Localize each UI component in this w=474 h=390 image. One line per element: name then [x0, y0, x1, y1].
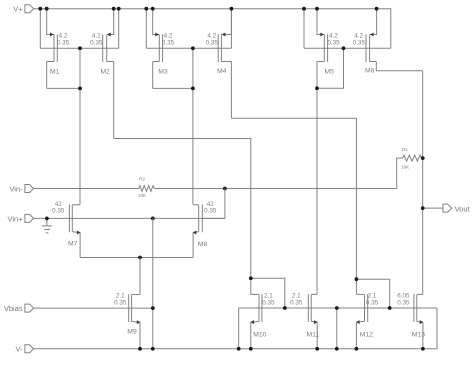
wire M12 drain-gate tie [356, 279, 389, 308]
svg-text:Vbias: Vbias [4, 304, 23, 313]
junction V- rail/M11 source [315, 347, 319, 351]
svg-text:2.1: 2.1 [116, 292, 125, 299]
junction M3/M4 gate node [191, 46, 195, 50]
wire Vin- line (left of R2) [34, 188, 139, 190]
transistor M3 PMOS 4.2/0.35 [146, 9, 174, 76]
transistor M11 NMOS 2.1/0.35 [290, 293, 319, 349]
port Vin+ [8, 214, 34, 223]
wire M4 drain runner to M12 [231, 118, 356, 294]
junction M2 drain / M10 drain node [249, 276, 253, 280]
ground symbol on Vin+ [42, 218, 52, 233]
junction V- rail/M9 source [138, 347, 142, 351]
transistor M1 PMOS 4.2/0.35 [40, 9, 69, 76]
junction M1/M2 gate node [78, 46, 82, 50]
transistor M7 NMOS 42/0.35 [52, 201, 80, 257]
junction M10/M11 gate node [283, 306, 287, 310]
svg-text:M12: M12 [360, 331, 373, 338]
wire Vbias line [34, 307, 153, 309]
svg-text:0.35: 0.35 [90, 40, 103, 47]
transistor M4 PMOS 4.2/0.35 [206, 9, 232, 75]
wire M2 drain down [113, 62, 115, 139]
wire M2 drain runner to M10 [114, 139, 251, 279]
wire Vin- line (right of R2) [155, 188, 397, 190]
wire M11 bulk to rail [336, 308, 338, 349]
wire M13 bulk (to V- rail end) [417, 307, 437, 309]
junction rail/M2 source [112, 7, 116, 11]
svg-text:M2: M2 [101, 68, 111, 75]
svg-text:0.35: 0.35 [327, 40, 340, 47]
svg-text:M11: M11 [307, 331, 320, 338]
wire M3 drain line [153, 87, 193, 89]
transistor M8 NMOS 42/0.35 [193, 201, 217, 257]
wire M5/M6 gate-bulk line [304, 47, 391, 49]
transistor M13 NMOS 6.05/0.35 [397, 293, 425, 349]
transistor M12 NMOS 2.1/0.35 [356, 293, 379, 349]
svg-text:0.35: 0.35 [206, 40, 219, 47]
wire output vertical (M6 drain / R1 / Vout / M13 drain) [422, 71, 424, 295]
junction V- rail/M13 source [421, 347, 425, 351]
wire V- rail (bottom, wraps up to M13 bulk) [34, 308, 437, 349]
wire V+ rail (top, wraps down to M6 bulk) [34, 9, 391, 49]
svg-text:4.2: 4.2 [164, 33, 173, 40]
wire M3 gate-drain vertical down to M8 drain [192, 48, 194, 204]
svg-text:0.35: 0.35 [366, 299, 379, 306]
svg-text:4.2: 4.2 [59, 33, 68, 40]
transistor M10 NMOS 2.1/0.35 [250, 293, 275, 349]
junction rail/M5 bulk [302, 7, 306, 11]
wire M4 source/bulk tap [230, 9, 232, 49]
svg-text:M4: M4 [217, 68, 227, 75]
svg-text:M10: M10 [253, 331, 266, 338]
wire diff source rail [80, 257, 193, 259]
junction rail/M6 source [375, 7, 379, 11]
svg-text:0.35: 0.35 [52, 207, 65, 214]
junction V- rail/M10 source [249, 347, 253, 351]
svg-text:0.35: 0.35 [204, 207, 217, 214]
svg-text:4.2: 4.2 [354, 33, 363, 40]
svg-text:V+: V+ [13, 5, 23, 14]
wire M3/M4 gate-bulk line [146, 47, 231, 49]
junction M5 drain node [315, 86, 319, 90]
port Vout [443, 204, 471, 213]
port Vbias [4, 304, 34, 313]
svg-text:0.35: 0.35 [162, 40, 175, 47]
junction R1/output node [421, 156, 425, 160]
svg-text:M9: M9 [127, 329, 137, 336]
transistor M6 PMOS 4.2/0.35 [353, 9, 377, 75]
port Vin- [9, 184, 33, 193]
junction V- rail/M11-M12 bulk [335, 347, 339, 351]
junction V- rail/M10 bulk [237, 347, 241, 351]
wire M1/M2 gate-bulk line [40, 47, 118, 49]
junction M11/M12 bulk node [335, 306, 339, 310]
wire M1 drain line [47, 87, 80, 89]
wire M8 gate riser [202, 189, 225, 219]
wire R1 left lead from Vin- line [397, 158, 403, 188]
junction V- rail/bulk vertical [151, 347, 155, 351]
junction rail/M5 source [315, 7, 319, 11]
wire M10 bulk down [238, 308, 240, 349]
junction M12/M13 gate node [388, 306, 392, 310]
junction rail/M1 source [45, 7, 49, 11]
junction tail node [138, 256, 142, 260]
svg-text:R1: R1 [402, 147, 408, 152]
junction rail/M2 bulk [117, 7, 121, 11]
junction rail/M4 source-bulk [230, 7, 234, 11]
svg-text:0.35: 0.35 [114, 299, 127, 306]
svg-text:0.35: 0.35 [290, 299, 303, 306]
svg-text:10K: 10K [138, 193, 147, 198]
svg-text:V-: V- [16, 345, 24, 354]
svg-text:0.35: 0.35 [57, 40, 70, 47]
svg-text:10K: 10K [401, 165, 410, 170]
svg-text:M5: M5 [325, 68, 335, 75]
svg-text:M8: M8 [198, 241, 208, 248]
port V+ [13, 5, 33, 14]
svg-text:M13: M13 [412, 331, 425, 338]
svg-text:0.35: 0.35 [397, 299, 410, 306]
transistor M5 PMOS 4.2/0.35 [304, 9, 340, 76]
wire M10-M13 gate-bulk line [239, 307, 437, 309]
wire bulk vertical to V- rail [152, 218, 154, 348]
svg-text:R2: R2 [139, 176, 145, 181]
svg-text:Vin-: Vin- [9, 184, 23, 193]
junction M9 bulk / bulk vertical [151, 306, 155, 310]
junction M7/M8 bulk node [151, 217, 155, 221]
junction M1 drain node [78, 87, 82, 91]
svg-text:0.35: 0.35 [262, 299, 275, 306]
junction M3 drain node [191, 87, 195, 91]
wire Vin+ / gate-bulk line M7 M8 [34, 217, 225, 219]
transistor M2 PMOS 4.2/0.35 [90, 9, 119, 76]
wire M3 drain step down [152, 62, 154, 89]
wire M5 drain to gate tie [317, 48, 344, 88]
port V- [16, 345, 34, 354]
junction V- rail/M12 source [355, 347, 359, 351]
wire M4 drain down [230, 62, 232, 119]
svg-text:Vout: Vout [455, 204, 471, 213]
transistor M9 NMOS 2.1/0.35 [114, 292, 140, 349]
wire Vout tap [423, 207, 443, 209]
wire M1 drain step down [46, 62, 48, 89]
wire M10 drain up to tie [250, 278, 252, 294]
svg-text:4.2: 4.2 [329, 33, 338, 40]
junction M4 drain / M12 drain node [355, 277, 359, 281]
wire M9 drain up to tail node [139, 258, 141, 295]
junction rail/M3 source [151, 7, 155, 11]
wire M5 drain down through to M11 drain [316, 62, 318, 295]
junction M5/M6 gate node [342, 46, 346, 50]
wire M6 drain step down [375, 62, 377, 71]
junction rail/M3 bulk [144, 7, 148, 11]
svg-text:4.2: 4.2 [207, 33, 216, 40]
junction Vin+/ground [45, 217, 49, 221]
svg-text:M1: M1 [50, 68, 60, 75]
resistor R1 10K [397, 147, 423, 188]
svg-text:Vin+: Vin+ [8, 214, 24, 223]
svg-text:4.2: 4.2 [92, 33, 101, 40]
junction output/Vout [421, 206, 425, 210]
wire M6 drain to output [376, 70, 422, 72]
wire M1 gate-drain vertical down to M7 drain [79, 48, 81, 204]
svg-text:0.35: 0.35 [353, 40, 366, 47]
svg-text:M6: M6 [365, 67, 375, 74]
junction rail/M1 bulk [38, 7, 42, 11]
junction Vin- / M8 gate node [223, 187, 227, 191]
resistor R2 10K [138, 176, 155, 198]
svg-text:M3: M3 [158, 68, 168, 75]
svg-text:M7: M7 [68, 241, 78, 248]
wire M10 drain-gate tie [251, 278, 285, 308]
